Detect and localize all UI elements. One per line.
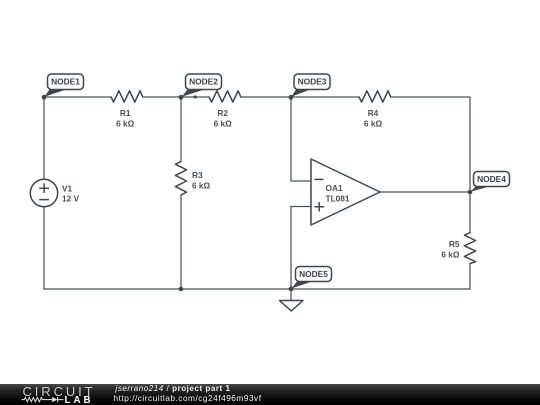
junction dot NODE4 — [468, 190, 473, 195]
svg-text:R5: R5 — [449, 239, 460, 249]
svg-text:NODE2: NODE2 — [189, 77, 218, 87]
wire bottom rail — [44, 288, 470, 290]
voltage source V1 — [30, 179, 57, 206]
svg-text:jserrano214 / project part 1: jserrano214 / project part 1 — [115, 384, 231, 393]
junction dot NODE2 — [179, 95, 184, 100]
junction dot NODE3 — [289, 95, 294, 100]
wire R5 to bottom right corner — [469, 264, 471, 290]
svg-text:6 kΩ: 6 kΩ — [116, 119, 135, 129]
resistor R1 — [111, 91, 143, 102]
wire V1 to bottom rail — [43, 207, 45, 289]
wire R3 to bottom rail — [180, 195, 182, 289]
wire R4 to top right corner — [391, 96, 471, 98]
svg-text:V1: V1 — [62, 183, 73, 193]
svg-text:LAB: LAB — [65, 395, 94, 405]
junction dot NODE5 — [289, 287, 294, 292]
wire top segment NODE1 to R1 — [44, 96, 111, 98]
svg-text:NODE5: NODE5 — [299, 269, 328, 279]
wire R1 to NODE2 — [143, 96, 181, 98]
node NODE1 flag — [44, 74, 83, 97]
wire NODE4 to R5 — [469, 192, 471, 233]
wire NODE1 down to V1 — [43, 97, 45, 179]
svg-text:R1: R1 — [120, 108, 131, 118]
node NODE3 flag — [291, 74, 330, 97]
wire NODE2 down to R3 — [180, 97, 182, 162]
svg-text:NODE1: NODE1 — [51, 77, 80, 87]
resistor R5 — [464, 233, 475, 264]
wire NODE2 to R2 — [181, 96, 209, 98]
svg-text:12 V: 12 V — [62, 194, 80, 204]
svg-text:6 kΩ: 6 kΩ — [441, 250, 460, 260]
svg-text:R4: R4 — [368, 108, 379, 118]
op-amp OA1 — [311, 159, 380, 225]
wire op-amp output to NODE4 — [380, 191, 470, 193]
resistor R2 — [209, 91, 241, 102]
svg-text:R2: R2 — [217, 108, 228, 118]
wire right rail top to NODE4 — [469, 97, 471, 192]
logo diode triangle — [52, 397, 57, 402]
svg-text:6 kΩ: 6 kΩ — [364, 119, 383, 129]
wire op-amp non-inverting input down to NODE5 — [291, 207, 311, 290]
junction dot NODE1 — [42, 95, 47, 100]
resistor R4 — [359, 91, 391, 102]
wire NODE3 to R4 — [291, 96, 359, 98]
wire endpoint dot near NODE2 — [194, 95, 197, 98]
svg-text:http://circuitlab.com/cg24f496: http://circuitlab.com/cg24f496m93vf — [114, 393, 262, 403]
svg-text:TL081: TL081 — [326, 193, 350, 203]
ground symbol — [280, 301, 304, 312]
svg-text:6 kΩ: 6 kΩ — [192, 180, 211, 190]
footer bar — [0, 384, 540, 405]
svg-text:R3: R3 — [192, 170, 203, 180]
wire R2 to NODE3 — [241, 96, 292, 98]
ground stub wire — [290, 289, 292, 301]
wire NODE3 down to op-amp inverting input — [291, 97, 311, 181]
node NODE4 flag — [470, 172, 509, 192]
node NODE2 flag — [182, 74, 222, 97]
resistor R3 — [175, 162, 186, 196]
logo resistor-diode glyph — [22, 397, 64, 402]
svg-text:OA1: OA1 — [326, 183, 343, 193]
svg-text:NODE3: NODE3 — [298, 77, 327, 87]
svg-text:6 kΩ: 6 kΩ — [214, 119, 233, 129]
svg-text:NODE4: NODE4 — [477, 174, 506, 184]
node NODE5 flag — [291, 267, 331, 289]
junction dot R3 bottom — [179, 287, 184, 292]
